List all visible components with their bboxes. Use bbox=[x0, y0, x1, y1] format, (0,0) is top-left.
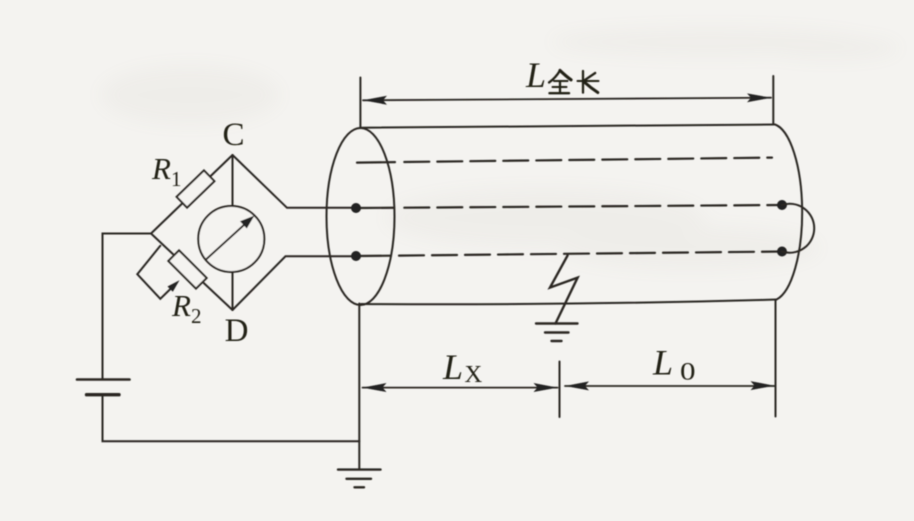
wire: bridge left vertex to battery positive bbox=[103, 234, 152, 380]
node dot: upper right conductor bbox=[777, 200, 787, 210]
wire: galvanometer to D bbox=[232, 272, 234, 310]
arrowhead: R2 wiper bbox=[168, 280, 180, 292]
node dot: lower left conductor bbox=[351, 251, 361, 261]
wire: R2 wiper connection bbox=[137, 246, 174, 299]
label 长 (drawn strokes) bbox=[578, 71, 599, 93]
dimension extension line (bottom right) bbox=[775, 300, 777, 417]
wire: bridge arm C to upper cable conductor node bbox=[233, 155, 357, 208]
svg-text:L: L bbox=[525, 55, 546, 95]
node dot: upper left conductor bbox=[351, 203, 361, 213]
wire: bridge arm C to left vertex bbox=[151, 155, 233, 234]
svg-text:0: 0 bbox=[680, 359, 696, 386]
arrowhead: needle bbox=[240, 216, 255, 229]
cable bottom edge bbox=[361, 300, 777, 305]
wire: battery negative to ground junction bbox=[103, 395, 360, 442]
wire: bridge arm D to lower cable conductor node bbox=[233, 256, 357, 310]
cable right end cap bbox=[775, 125, 802, 300]
fault ground bbox=[536, 324, 578, 342]
wire: far-end loop jumper bbox=[782, 204, 814, 253]
dimension extension line (top left) bbox=[359, 78, 361, 129]
svg-text:D: D bbox=[225, 313, 249, 349]
wire: bridge arm left vertex to D bbox=[151, 234, 233, 311]
dimension tick at fault position bbox=[559, 362, 561, 418]
wire: cable sheath to ground (left vertical) bbox=[358, 304, 360, 469]
cable left end (ellipse) bbox=[327, 128, 395, 305]
arrowhead: LX left bbox=[363, 383, 387, 392]
galvanometer needle bbox=[207, 222, 248, 259]
fault (lightning bolt to ground) bbox=[550, 255, 578, 323]
arrowhead: L全长 left bbox=[363, 96, 387, 105]
dimension extension line (top right) bbox=[772, 76, 774, 125]
arrowhead: L0 right bbox=[751, 381, 775, 390]
dimension line L0 bbox=[565, 385, 775, 387]
galvanometer G bbox=[198, 206, 264, 272]
label 全 (drawn strokes) bbox=[549, 71, 571, 94]
svg-text:C: C bbox=[222, 117, 244, 153]
conductor (lower dashed) bbox=[356, 255, 391, 258]
dimension line LX bbox=[363, 387, 558, 389]
arrowhead: LX right bbox=[534, 383, 558, 392]
cable top edge bbox=[361, 125, 776, 128]
conductor (middle dashed) bbox=[356, 207, 394, 209]
battery B long plate bbox=[77, 378, 130, 381]
svg-text:L: L bbox=[652, 343, 673, 383]
dimension line L全长 bbox=[363, 98, 771, 101]
arrowhead: L0 left bbox=[565, 381, 589, 390]
battery B short plate bbox=[87, 393, 120, 396]
conductor (top dashed) bbox=[357, 161, 395, 164]
node dot: lower right conductor bbox=[777, 247, 787, 257]
resistor R2 (adjustable) body bbox=[168, 250, 206, 288]
wire: C to galvanometer bbox=[232, 155, 234, 206]
ground (main, under cable left end) bbox=[338, 470, 381, 488]
arrowhead: L全长 right bbox=[747, 93, 771, 102]
resistor R1 bbox=[177, 170, 215, 207]
